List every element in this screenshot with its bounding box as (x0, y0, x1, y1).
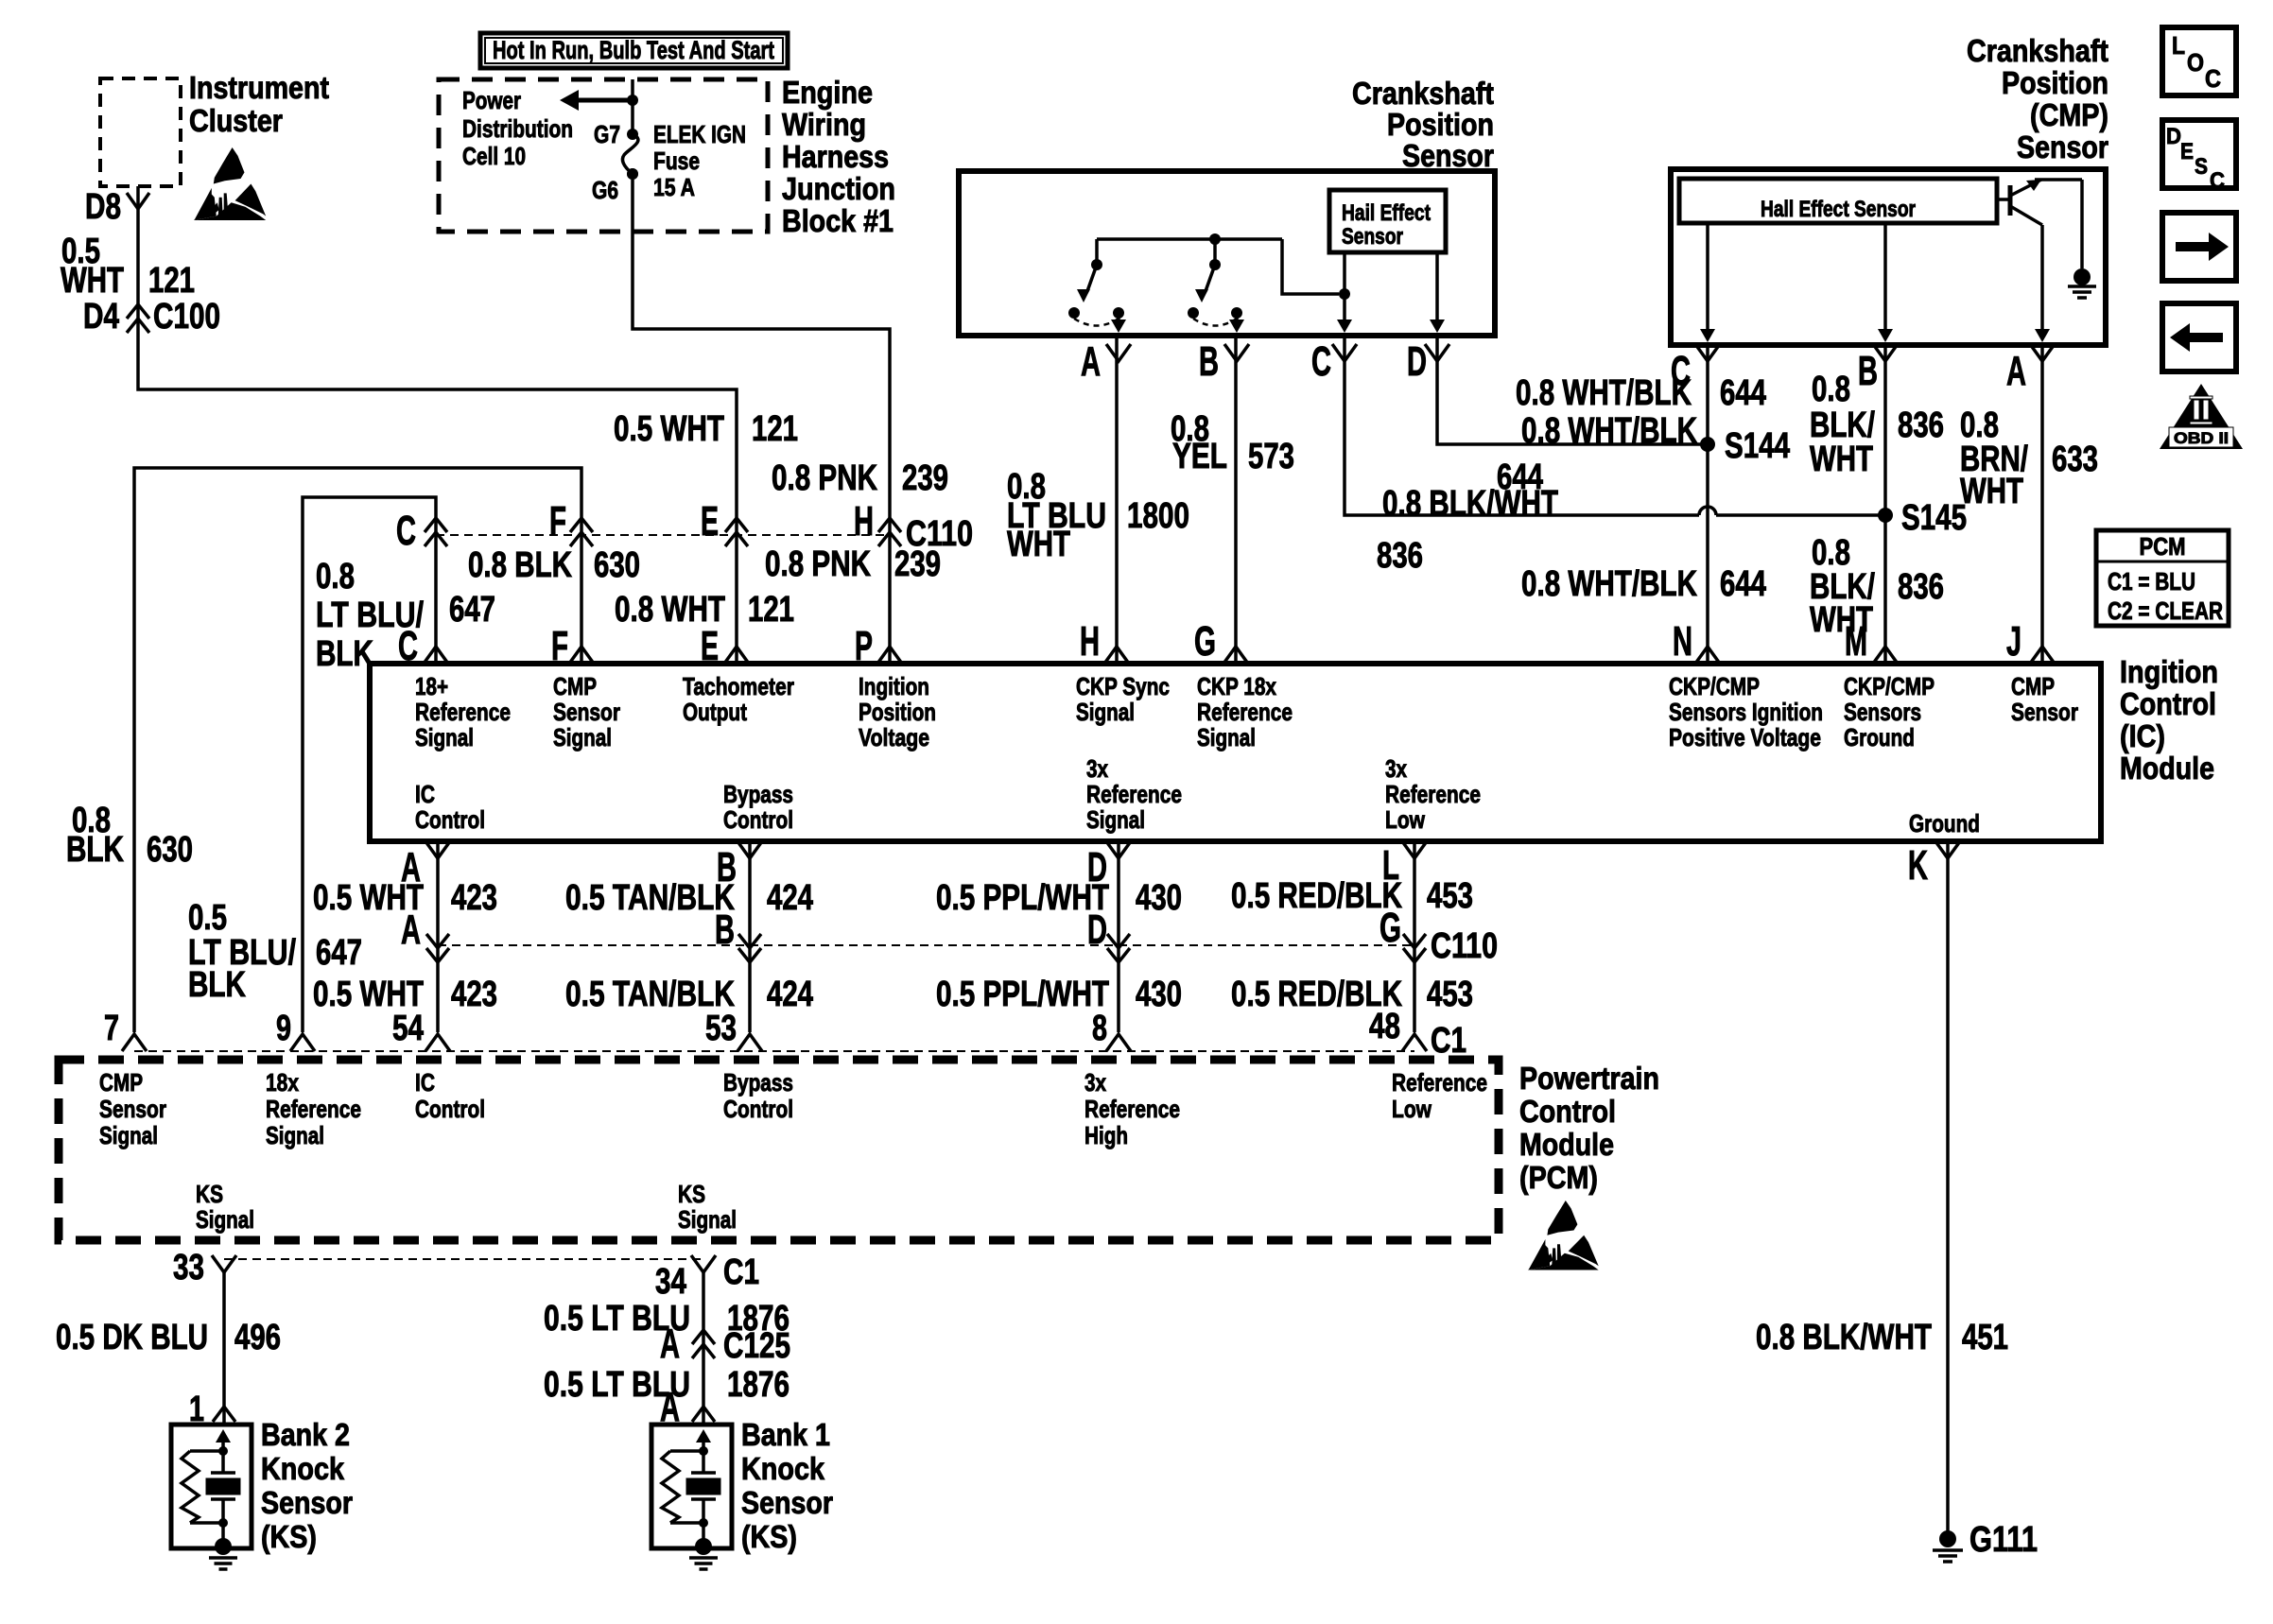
svg-text:8: 8 (1092, 1009, 1107, 1048)
svg-text:C: C (2210, 168, 2225, 194)
wire 1876 (702, 1272, 705, 1425)
svg-text:C: C (398, 623, 418, 669)
DESC icon (2162, 120, 2236, 188)
svg-text:Reference: Reference (1385, 780, 1481, 808)
svg-text:Reference: Reference (1392, 1068, 1487, 1097)
svg-text:Signal: Signal (266, 1121, 324, 1149)
svg-text:CKP/CMP: CKP/CMP (1669, 672, 1760, 700)
svg-text:836: 836 (1898, 567, 1944, 607)
svg-text:0.8 PNK: 0.8 PNK (772, 458, 877, 498)
powertrain control module box (59, 1060, 1499, 1240)
svg-text:(IC): (IC) (2120, 718, 2165, 753)
svg-text:B: B (1858, 348, 1878, 394)
instrument cluster box (100, 78, 181, 186)
splice S145 (1878, 508, 1893, 523)
svg-text:A: A (660, 1321, 680, 1367)
wire 453 (1413, 841, 1416, 1032)
svg-text:0.8 WHT/BLK: 0.8 WHT/BLK (1516, 373, 1692, 413)
svg-text:Hall Effect Sensor: Hall Effect Sensor (1761, 197, 1916, 222)
svg-text:453: 453 (1427, 876, 1473, 916)
svg-text:Reference: Reference (1197, 698, 1293, 726)
svg-text:A: A (1081, 338, 1101, 385)
svg-text:Low: Low (1392, 1095, 1432, 1123)
svg-text:3x: 3x (1086, 754, 1108, 783)
svg-text:B: B (1199, 338, 1219, 385)
svg-text:S145: S145 (1901, 498, 1967, 538)
svg-text:B: B (715, 907, 735, 953)
svg-text:CMP: CMP (2011, 672, 2055, 700)
svg-text:121: 121 (748, 590, 794, 630)
svg-text:3x: 3x (1385, 754, 1407, 783)
svg-text:Bypass: Bypass (723, 1068, 793, 1097)
svg-text:Powertrain: Powertrain (1519, 1061, 1659, 1096)
wire 644 CKP-D to S144 (1437, 336, 1701, 444)
svg-text:Signal: Signal (415, 723, 474, 752)
svg-text:0.5 PPL/WHT: 0.5 PPL/WHT (936, 878, 1109, 918)
svg-text:Ground: Ground (1844, 723, 1915, 752)
svg-text:(KS): (KS) (261, 1519, 317, 1554)
svg-text:Position: Position (1387, 107, 1494, 142)
svg-text:0.5: 0.5 (188, 898, 227, 938)
svg-text:Hail Effect: Hail Effect (1342, 200, 1431, 226)
svg-text:C1: C1 (723, 1253, 759, 1292)
svg-text:Signal: Signal (678, 1205, 737, 1234)
svg-text:G: G (1194, 618, 1216, 665)
svg-text:Sensor: Sensor (2011, 698, 2078, 726)
svg-text:Position: Position (2002, 65, 2108, 100)
svg-text:YEL: YEL (1172, 437, 1227, 476)
svg-text:Control: Control (1519, 1094, 1616, 1129)
svg-text:Position: Position (859, 698, 936, 726)
svg-text:C125: C125 (723, 1326, 790, 1366)
hot in run label box (480, 33, 788, 68)
svg-text:Wiring: Wiring (782, 107, 866, 142)
svg-text:15 A: 15 A (653, 173, 695, 201)
svg-text:Sensor: Sensor (1402, 138, 1494, 173)
svg-text:Control: Control (723, 805, 793, 834)
CKP hall drops (1343, 252, 1346, 325)
splice S144 (1700, 437, 1715, 452)
ground G111 (1939, 1530, 1956, 1547)
svg-text:430: 430 (1136, 975, 1182, 1014)
svg-text:Sensor: Sensor (741, 1485, 833, 1520)
svg-text:0.8: 0.8 (1812, 370, 1850, 409)
svg-text:0.5 WHT: 0.5 WHT (614, 409, 724, 449)
svg-text:S: S (2195, 154, 2208, 180)
svg-text:7: 7 (104, 1009, 119, 1048)
svg-text:9: 9 (276, 1009, 291, 1048)
wire 1800 (1115, 336, 1119, 664)
svg-text:High: High (1084, 1121, 1128, 1149)
svg-text:647: 647 (449, 590, 495, 630)
svg-text:Control: Control (415, 805, 485, 834)
svg-text:ELEK IGN: ELEK IGN (653, 120, 746, 148)
svg-text:CKP/CMP: CKP/CMP (1844, 672, 1935, 700)
svg-text:Control: Control (723, 1095, 793, 1123)
svg-text:C: C (396, 508, 416, 554)
fuse ELEK IGN 15A (622, 134, 638, 174)
wire 573 (1234, 336, 1238, 664)
bank 1 knock sensor (651, 1425, 732, 1548)
svg-text:D4: D4 (83, 297, 119, 337)
svg-text:D: D (1087, 907, 1107, 953)
svg-text:L: L (2172, 31, 2185, 60)
svg-text:1876: 1876 (727, 1365, 789, 1405)
svg-text:G7: G7 (594, 120, 620, 148)
svg-text:S144: S144 (1725, 426, 1790, 466)
engine wiring harness junction block box (439, 79, 768, 232)
svg-text:C: C (2205, 64, 2221, 93)
svg-text:0.8: 0.8 (316, 557, 355, 596)
wire 630 upper run (134, 468, 581, 1032)
wire segs C F E P below C110 (434, 535, 438, 664)
wire 424 (748, 841, 752, 1032)
svg-text:IC: IC (415, 1068, 435, 1097)
svg-text:0.8 BLK: 0.8 BLK (468, 545, 572, 585)
svg-text:G: G (1379, 905, 1401, 951)
LOC icon (2162, 27, 2236, 95)
svg-text:E: E (701, 623, 719, 669)
svg-text:C2 = CLEAR: C2 = CLEAR (2108, 596, 2223, 625)
svg-text:Engine: Engine (782, 75, 873, 110)
arrow right icon (2162, 213, 2236, 281)
wire 423 (436, 841, 440, 1032)
svg-text:Hot In Run, Bulb Test And Star: Hot In Run, Bulb Test And Start (493, 36, 774, 64)
svg-text:Signal: Signal (553, 723, 612, 752)
bank 2 knock sensor (171, 1425, 252, 1548)
C110 dashed line row2 (438, 944, 1414, 946)
power distribution arrow (574, 98, 633, 103)
svg-text:Ingition: Ingition (859, 672, 929, 700)
ESD symbol PCM (1547, 1201, 1577, 1235)
connector C1 line (134, 1050, 1414, 1052)
svg-text:Sensor: Sensor (261, 1485, 353, 1520)
svg-text:Harness: Harness (782, 139, 889, 174)
svg-text:18+: 18+ (415, 672, 448, 700)
svg-text:630: 630 (147, 830, 193, 870)
svg-text:Fuse: Fuse (653, 147, 700, 175)
svg-text:Module: Module (2120, 751, 2214, 786)
transistor CMP (1997, 198, 2008, 201)
svg-text:573: 573 (1248, 437, 1294, 476)
OBD II icon (2160, 384, 2243, 449)
svg-text:424: 424 (767, 975, 813, 1014)
crankshaft position sensor box (959, 171, 1495, 336)
svg-text:Bank 2: Bank 2 (261, 1417, 350, 1452)
svg-text:Reference: Reference (1086, 780, 1182, 808)
svg-text:CKP 18x: CKP 18x (1197, 672, 1276, 700)
svg-text:PCM: PCM (2140, 532, 2186, 561)
svg-text:0.8 PNK: 0.8 PNK (765, 544, 871, 584)
svg-text:D8: D8 (85, 187, 121, 227)
svg-text:0.8 BLK/WHT: 0.8 BLK/WHT (1756, 1318, 1932, 1357)
svg-text:KS: KS (678, 1180, 705, 1208)
svg-text:Ground: Ground (1909, 809, 1980, 838)
svg-text:Low: Low (1385, 805, 1426, 834)
svg-text:836: 836 (1898, 406, 1944, 445)
svg-text:48: 48 (1369, 1007, 1400, 1046)
svg-text:A: A (2006, 348, 2026, 394)
svg-text:WHT: WHT (1007, 525, 1070, 564)
svg-text:Power: Power (462, 86, 521, 114)
CMP hall drops (1706, 223, 1709, 335)
svg-text:644: 644 (1720, 564, 1766, 604)
svg-text:Sensor: Sensor (553, 698, 620, 726)
hall effect sensor box CMP (1679, 179, 1997, 223)
svg-text:496: 496 (234, 1318, 281, 1357)
svg-text:34: 34 (655, 1262, 686, 1302)
svg-text:C: C (1311, 338, 1331, 385)
svg-text:423: 423 (451, 878, 497, 918)
svg-text:121: 121 (752, 409, 798, 449)
C110 dashed line row1 (436, 534, 890, 536)
svg-text:Signal: Signal (99, 1121, 158, 1149)
svg-text:WHT: WHT (1960, 472, 2023, 511)
svg-text:239: 239 (894, 544, 941, 584)
svg-text:G6: G6 (592, 176, 618, 204)
svg-text:Signal: Signal (1197, 723, 1256, 752)
svg-text:Reference: Reference (266, 1095, 361, 1123)
svg-text:IC: IC (415, 780, 435, 808)
svg-text:J: J (2006, 618, 2021, 665)
svg-text:453: 453 (1427, 975, 1473, 1014)
svg-text:CMP: CMP (99, 1068, 143, 1097)
svg-text:0.5 TAN/BLK: 0.5 TAN/BLK (565, 878, 735, 918)
svg-text:Module: Module (1519, 1127, 1614, 1162)
ESD symbol instrument cluster (214, 147, 245, 184)
svg-text:A: A (401, 907, 421, 953)
svg-text:BLK: BLK (188, 965, 246, 1005)
svg-text:430: 430 (1136, 878, 1182, 918)
wire 451 ground (1946, 841, 1950, 1535)
CKP switch 2 (1213, 239, 1217, 265)
svg-text:Crankshaft: Crankshaft (1967, 33, 2108, 68)
svg-text:CMP: CMP (553, 672, 597, 700)
svg-text:647: 647 (316, 933, 362, 973)
wire 647 upper run (303, 497, 436, 1032)
svg-text:54: 54 (392, 1009, 424, 1048)
svg-text:424: 424 (767, 878, 813, 918)
svg-text:121: 121 (148, 261, 195, 301)
wire 121 instrument cluster (138, 186, 737, 535)
svg-text:Positive Voltage: Positive Voltage (1669, 723, 1821, 752)
C1 dashed line knock (224, 1258, 703, 1260)
PCM legend box (2096, 530, 2229, 626)
svg-text:Reference: Reference (1084, 1095, 1180, 1123)
svg-text:Knock: Knock (261, 1451, 345, 1486)
svg-text:644: 644 (1720, 373, 1766, 413)
svg-text:C100: C100 (153, 297, 220, 337)
svg-text:WHT: WHT (61, 261, 124, 301)
svg-text:18x: 18x (266, 1068, 299, 1097)
svg-text:H: H (854, 498, 874, 544)
svg-text:Tachometer: Tachometer (683, 672, 794, 700)
wire 644 CMP-C (1706, 345, 1709, 664)
svg-text:Sensor: Sensor (2017, 130, 2108, 164)
svg-text:Sensors: Sensors (1844, 698, 1921, 726)
camshaft position sensor box (1671, 169, 2106, 345)
svg-text:53: 53 (705, 1009, 737, 1048)
hall effect sensor box CKP (1329, 190, 1446, 252)
svg-text:33: 33 (173, 1248, 204, 1287)
svg-text:0.8 WHT/BLK: 0.8 WHT/BLK (1521, 564, 1697, 604)
svg-text:D: D (2166, 124, 2181, 149)
svg-text:C1: C1 (1431, 1021, 1466, 1061)
svg-text:Bypass: Bypass (723, 780, 793, 808)
svg-text:0.8 BLK/WHT: 0.8 BLK/WHT (1382, 484, 1558, 524)
svg-text:C1 = BLU: C1 = BLU (2108, 567, 2195, 596)
svg-text:Voltage: Voltage (859, 723, 929, 752)
wire 239 from fuse (633, 180, 890, 535)
svg-text:0.5 DK BLU: 0.5 DK BLU (56, 1318, 208, 1357)
svg-text:Signal: Signal (196, 1205, 254, 1234)
svg-text:OBD II: OBD II (2174, 429, 2229, 447)
svg-text:O: O (2187, 48, 2204, 77)
svg-text:Control: Control (415, 1095, 485, 1123)
svg-text:Junction: Junction (782, 171, 895, 206)
ground CMP internal (2073, 268, 2091, 285)
CKP switch 1 (1095, 239, 1099, 265)
svg-text:1800: 1800 (1127, 496, 1189, 536)
svg-text:CKP Sync: CKP Sync (1076, 672, 1170, 700)
svg-text:KS: KS (196, 1180, 223, 1208)
wire 496 (222, 1272, 226, 1425)
svg-text:0.5 RED/BLK: 0.5 RED/BLK (1231, 876, 1402, 916)
svg-text:239: 239 (902, 458, 948, 498)
svg-text:G111: G111 (1969, 1520, 2038, 1560)
wire 836 CKP-C to S145 (1345, 336, 1699, 515)
wire 633 CMP-A (2040, 345, 2044, 664)
svg-text:H: H (1080, 618, 1100, 665)
svg-text:E: E (701, 498, 719, 544)
svg-text:N: N (1673, 618, 1692, 665)
svg-text:M: M (1845, 618, 1867, 665)
svg-text:(CMP): (CMP) (2030, 97, 2108, 132)
svg-text:BLK: BLK (66, 830, 124, 870)
svg-text:Block #1: Block #1 (782, 203, 894, 238)
svg-text:F: F (549, 498, 566, 544)
svg-text:630: 630 (594, 545, 640, 585)
wire fuse feed (631, 79, 634, 134)
svg-text:Control: Control (2120, 686, 2216, 721)
svg-text:Sensors Ignition: Sensors Ignition (1669, 698, 1823, 726)
svg-text:BLK: BLK (316, 634, 373, 674)
svg-text:0.8 WHT/BLK: 0.8 WHT/BLK (1521, 411, 1697, 451)
svg-text:WHT: WHT (1810, 440, 1873, 479)
wire 836 CMP-B (1883, 345, 1887, 664)
svg-text:K: K (1908, 842, 1928, 889)
svg-text:P: P (855, 623, 873, 669)
svg-text:836: 836 (1377, 536, 1423, 576)
svg-text:C110: C110 (1431, 926, 1498, 966)
svg-text:Ingition: Ingition (2120, 654, 2218, 689)
ignition control module box (370, 664, 2101, 841)
svg-text:F: F (551, 623, 568, 669)
svg-text:423: 423 (451, 975, 497, 1014)
svg-text:(KS): (KS) (741, 1519, 797, 1554)
svg-text:Knock: Knock (741, 1451, 825, 1486)
svg-text:Cell 10: Cell 10 (462, 142, 526, 170)
svg-text:E: E (2180, 139, 2194, 164)
svg-text:Signal: Signal (1076, 698, 1135, 726)
svg-text:3x: 3x (1084, 1068, 1106, 1097)
svg-text:Bank 1: Bank 1 (741, 1417, 830, 1452)
wire 430 (1117, 841, 1120, 1032)
svg-text:Cluster: Cluster (189, 103, 283, 138)
svg-text:(PCM): (PCM) (1519, 1160, 1598, 1195)
svg-text:Signal: Signal (1086, 805, 1145, 834)
svg-text:0.5 PPL/WHT: 0.5 PPL/WHT (936, 975, 1109, 1014)
svg-text:Output: Output (683, 698, 747, 726)
svg-text:Reference: Reference (415, 698, 511, 726)
arrow left icon (2162, 303, 2236, 371)
svg-text:Distribution: Distribution (462, 114, 573, 143)
svg-text:451: 451 (1962, 1318, 2008, 1357)
svg-text:Instrument: Instrument (189, 70, 329, 105)
CKP internal bus (1097, 237, 1282, 241)
svg-text:Crankshaft: Crankshaft (1352, 76, 1494, 111)
svg-text:Sensor: Sensor (1342, 224, 1403, 250)
svg-text:633: 633 (2052, 440, 2098, 479)
svg-text:Sensor: Sensor (99, 1095, 166, 1123)
